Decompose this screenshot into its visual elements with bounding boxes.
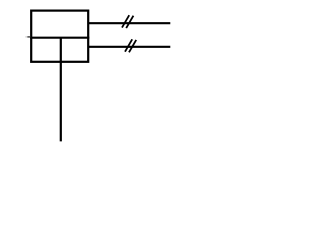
component body U1 (rectangular outline) — [31, 11, 88, 62]
pin stub (left pin) — [27, 36, 30, 38]
wire (vertical lead from body center down) — [60, 38, 62, 142]
double-slash bus mark on lower wire — [125, 39, 136, 52]
wire (upper right lead) — [88, 22, 170, 24]
wire (lower right lead) — [88, 46, 170, 48]
divider line inside component body — [30, 37, 89, 39]
double-slash bus mark on upper wire — [122, 15, 133, 28]
